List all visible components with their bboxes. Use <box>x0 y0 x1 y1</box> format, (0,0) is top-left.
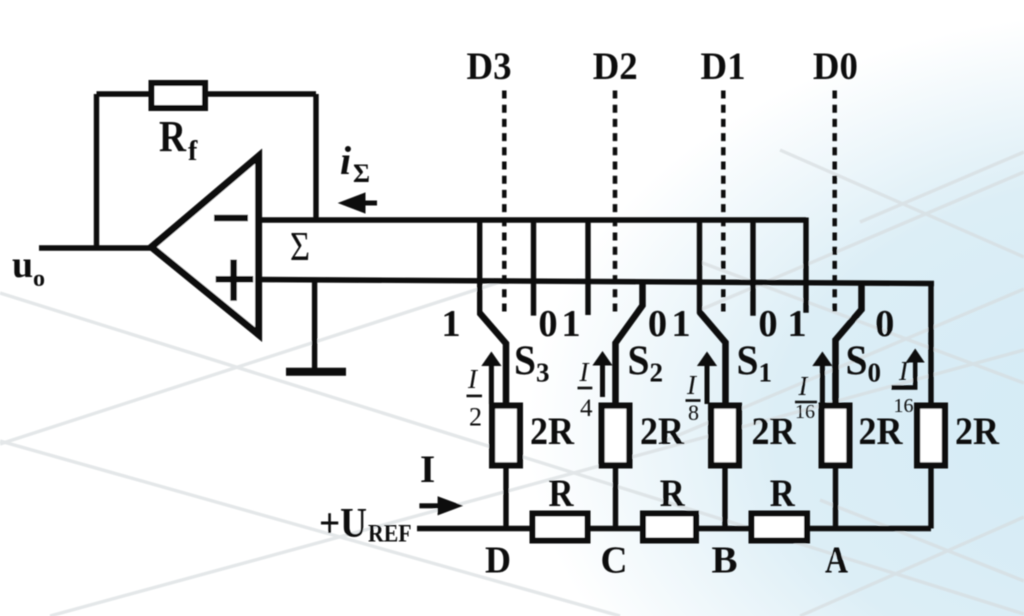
label fraction I/16 terminator <box>894 356 914 417</box>
svg-text:0: 0 <box>868 358 882 388</box>
svg-text:D2: D2 <box>593 45 638 88</box>
svg-text:1: 1 <box>671 303 690 345</box>
switch S0 contact 1 wire <box>803 218 808 313</box>
svg-text:f: f <box>188 136 198 167</box>
svg-text:C: C <box>601 540 628 582</box>
svg-text:2R: 2R <box>752 410 797 453</box>
svg-text:S: S <box>514 339 536 385</box>
switch S3 contact 0 wire <box>531 220 536 316</box>
label fraction I/2 <box>467 364 483 432</box>
wire UREF rail <box>417 526 931 531</box>
wire output uo <box>39 245 154 250</box>
ground symbol <box>286 368 346 376</box>
svg-text:Σ: Σ <box>353 159 370 188</box>
svg-text:D3: D3 <box>467 45 512 88</box>
svg-text:3: 3 <box>536 358 550 388</box>
svg-text:1: 1 <box>759 358 773 388</box>
resistor R1 box <box>533 514 588 541</box>
svg-text:o: o <box>33 266 45 292</box>
switch S3 contact 1 wire <box>477 220 482 315</box>
svg-text:I: I <box>579 357 591 387</box>
resistor 2R S3 box <box>492 406 520 466</box>
svg-text:REF: REF <box>368 521 412 548</box>
label fraction I/4 <box>578 357 594 422</box>
switch S1 arm (position 1) <box>700 312 726 404</box>
wire feedback right vertical <box>313 94 318 220</box>
svg-text:2R: 2R <box>640 410 685 453</box>
dashed line D2 <box>613 91 618 314</box>
switch S1 contact 0 wire <box>750 220 755 316</box>
label fraction I/16 S0 <box>795 371 817 423</box>
arrow I/2 current <box>481 352 501 405</box>
dashed line D1 <box>721 91 726 314</box>
svg-text:I: I <box>467 364 479 394</box>
svg-text:2: 2 <box>469 403 482 432</box>
wire 2R terminator bottom <box>928 469 933 529</box>
wire top bus (summing rail to minus input) <box>258 217 806 222</box>
arrow I/4 current <box>592 351 612 397</box>
switch S2 arm (position 0) <box>616 282 643 404</box>
arrow I (UREF input) <box>419 496 463 515</box>
svg-text:A: A <box>825 540 848 582</box>
arrow I/16 current <box>812 352 832 405</box>
svg-text:2R: 2R <box>859 410 904 453</box>
svg-text:Σ: Σ <box>290 223 310 269</box>
op-amp plus sign <box>216 260 254 301</box>
svg-text:u: u <box>12 244 33 286</box>
resistor 2R S1 box <box>711 406 739 466</box>
wire 2R terminator top <box>928 284 933 406</box>
switch S0 arm (position 0) <box>836 283 862 404</box>
resistor 2R terminator box <box>917 406 945 466</box>
svg-text:1: 1 <box>787 303 806 345</box>
svg-text:I: I <box>420 448 435 491</box>
svg-text:2R: 2R <box>955 410 1000 453</box>
wire feedback top <box>97 91 317 96</box>
op-amp minus sign <box>214 215 248 222</box>
svg-text:0: 0 <box>875 303 894 345</box>
svg-text:I: I <box>798 371 810 401</box>
resistor Rf box <box>152 83 206 108</box>
wire ground branch <box>312 281 317 370</box>
svg-text:0: 0 <box>758 303 777 345</box>
wire 2R S2 bottom <box>613 469 618 530</box>
svg-text:S: S <box>846 339 868 385</box>
svg-text:S: S <box>628 339 650 385</box>
svg-text:16: 16 <box>795 401 815 423</box>
svg-text:R: R <box>159 112 187 161</box>
svg-text:I: I <box>686 370 698 400</box>
svg-text:1: 1 <box>561 303 580 345</box>
wire bottom bus (ground rail from plus input) <box>258 280 934 284</box>
svg-text:B: B <box>712 540 738 582</box>
dashed line D0 <box>832 91 837 314</box>
svg-text:D: D <box>485 540 511 582</box>
resistor R2 box <box>643 514 696 541</box>
arrow I/16 terminator bent <box>892 349 925 388</box>
svg-text:D0: D0 <box>813 45 858 88</box>
op-amp U1 triangle <box>151 156 258 335</box>
svg-text:S: S <box>737 339 759 385</box>
label fraction I/8 <box>686 370 701 425</box>
svg-text:2R: 2R <box>530 410 575 453</box>
svg-text:+U: +U <box>319 501 367 547</box>
svg-text:D1: D1 <box>701 45 746 88</box>
svg-text:8: 8 <box>688 400 699 425</box>
arrow i-sigma <box>338 192 377 213</box>
switch S1 contact 1 wire <box>697 220 702 314</box>
resistor 2R S2 box <box>602 406 630 466</box>
switch S3 arm (position 1) <box>480 313 506 404</box>
svg-text:1: 1 <box>441 303 460 345</box>
svg-text:0: 0 <box>538 303 557 345</box>
svg-text:4: 4 <box>580 395 593 422</box>
svg-text:i: i <box>340 138 351 183</box>
wire feedback left vertical <box>94 94 99 248</box>
resistor R3 box <box>752 514 808 541</box>
wire 2R S1 bottom <box>722 469 727 530</box>
svg-text:0: 0 <box>648 303 667 345</box>
svg-text:R: R <box>549 472 575 515</box>
arrow I/8 current <box>697 352 717 405</box>
svg-text:R: R <box>770 472 796 515</box>
switch S2 contact 1 wire <box>585 220 590 315</box>
wire 2R S3 bottom <box>503 469 508 530</box>
svg-text:2: 2 <box>650 358 664 388</box>
wire 2R S0 bottom <box>833 469 838 530</box>
dashed line D3 <box>502 91 507 314</box>
resistor 2R S0 box <box>822 406 850 466</box>
svg-text:R: R <box>660 472 686 515</box>
